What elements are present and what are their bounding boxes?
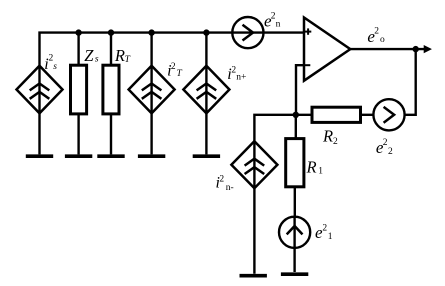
label e2o [367, 27, 385, 46]
wire feedback node left and down to i2n- source [254, 115, 295, 141]
e2-2 arrowhead [384, 107, 395, 123]
node dot on bus at Zs branch [75, 29, 81, 35]
ground i2n- [240, 274, 267, 278]
wire top bus from left corner to op-amp non-inverting input [40, 33, 305, 66]
ground i2n+ [193, 154, 220, 158]
svg-text:R: R [114, 46, 125, 65]
e2n arrowhead [243, 25, 254, 41]
ground RT [97, 154, 124, 158]
current source i2s diamond [17, 66, 63, 114]
wire i2n- vertical through diamond to ground [253, 141, 255, 274]
wire R2 to feedback node [296, 114, 312, 116]
wire Zs branch [77, 33, 79, 66]
wire feedback node down to R1 [295, 115, 297, 139]
wire i2n+ branch [205, 33, 207, 155]
wire RT branch [110, 33, 112, 66]
svg-text:2: 2 [374, 27, 379, 37]
label RT [114, 46, 131, 65]
svg-text:2: 2 [171, 62, 176, 72]
node dot on bus at i2n+ branch [203, 29, 209, 35]
wire output node down and left to e2-2 source [405, 49, 416, 115]
svg-text:n: n [276, 19, 281, 29]
svg-text:2: 2 [322, 223, 327, 233]
svg-text:2: 2 [388, 147, 393, 157]
node dot on bus at RT branch [108, 29, 114, 35]
svg-text:s: s [95, 55, 99, 65]
output arrow [424, 46, 431, 53]
svg-text:R: R [322, 126, 333, 145]
ground i2s [26, 154, 53, 158]
label e2-1 [315, 223, 333, 242]
svg-text:s: s [53, 62, 57, 72]
impedance Zs box [71, 65, 87, 114]
svg-text:n+: n+ [236, 73, 246, 83]
current source i2T diamond [129, 66, 175, 114]
svg-text:Z: Z [84, 46, 94, 65]
ground e2-1 [281, 272, 308, 276]
resistor R1 box [286, 139, 304, 187]
svg-text:T: T [125, 55, 131, 65]
wire inverting input down to feedback node [296, 65, 304, 115]
svg-text:T: T [177, 69, 183, 79]
label i2n+ [227, 66, 246, 83]
label i2T [167, 62, 182, 80]
svg-text:2: 2 [333, 137, 338, 147]
svg-text:o: o [380, 35, 385, 45]
wire branch i2s vertical through diamond to ground [38, 66, 40, 155]
voltage source e2-1 circle [279, 217, 310, 248]
current source i2n- diamond [231, 141, 277, 188]
svg-text:R: R [306, 158, 317, 177]
label i2n- [216, 174, 234, 193]
e2-1 arrowhead [287, 226, 303, 234]
ground i2T [138, 154, 165, 158]
node dot output [413, 46, 419, 52]
node dot on bus at i2T branch [148, 29, 154, 35]
label e2-2 [376, 138, 393, 157]
wire op-amp output [350, 48, 425, 50]
op-amp minus sign [305, 64, 310, 66]
svg-text:1: 1 [328, 232, 333, 242]
voltage source e2-2 circle [373, 99, 404, 130]
op-amp U1 triangle [304, 18, 350, 81]
label e2n [264, 11, 281, 30]
resistor RT box [103, 65, 119, 114]
label i2s [44, 54, 57, 73]
resistor R2 box [312, 107, 361, 122]
wire e2-2 to R2 [361, 114, 374, 116]
op-amp plus sign [305, 28, 311, 34]
label Zs [84, 46, 99, 65]
label R2 [322, 126, 338, 147]
ground Zs [65, 154, 92, 158]
voltage source e2n circle on bus [232, 17, 263, 48]
svg-text:n-: n- [226, 183, 234, 193]
svg-text:2: 2 [219, 174, 224, 184]
wire i2T branch [150, 33, 152, 155]
e2-1 internal wire [293, 217, 295, 272]
svg-text:1: 1 [318, 167, 323, 177]
label R1 [306, 158, 324, 177]
current source i2n+ diamond [183, 66, 229, 114]
wire R1 to e2-1 source [294, 187, 296, 217]
node dot feedback [293, 112, 299, 118]
